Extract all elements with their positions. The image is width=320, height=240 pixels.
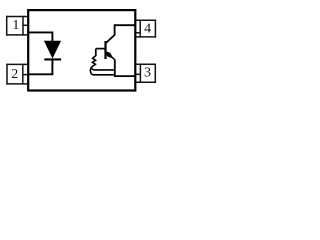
wire: anode from left edge to diode [28,32,53,41]
pin 1 stub [23,24,28,26]
package outline U1 [28,10,135,90]
diode cathode bar [44,58,61,60]
svg-text:3: 3 [144,65,151,80]
wire: cathode down and left to edge [28,59,53,74]
pin 2 stub [23,74,28,76]
pin 3 stub [135,73,140,75]
diode D1 (LED) triangle [45,41,61,57]
svg-text:2: 2 [11,67,18,82]
collector diagonal [106,25,135,43]
base lead [96,48,106,50]
emitter vertical and wire to right edge [115,59,135,76]
pin 1 box [6,16,28,36]
wire: resistor loop top line to emitter [92,69,114,70]
pin 3 box [135,64,156,84]
pin 4 box [135,20,156,38]
svg-text:1: 1 [12,18,19,33]
emitter diagonal [106,52,115,60]
pin 2 box [6,64,28,85]
svg-text:4: 4 [144,22,151,37]
transistor Q1 base bar [104,41,106,59]
pin 4 stub [135,32,140,34]
emitter arrow [106,52,113,58]
resistor R1 zigzag [90,56,114,75]
base wire down [95,49,97,56]
